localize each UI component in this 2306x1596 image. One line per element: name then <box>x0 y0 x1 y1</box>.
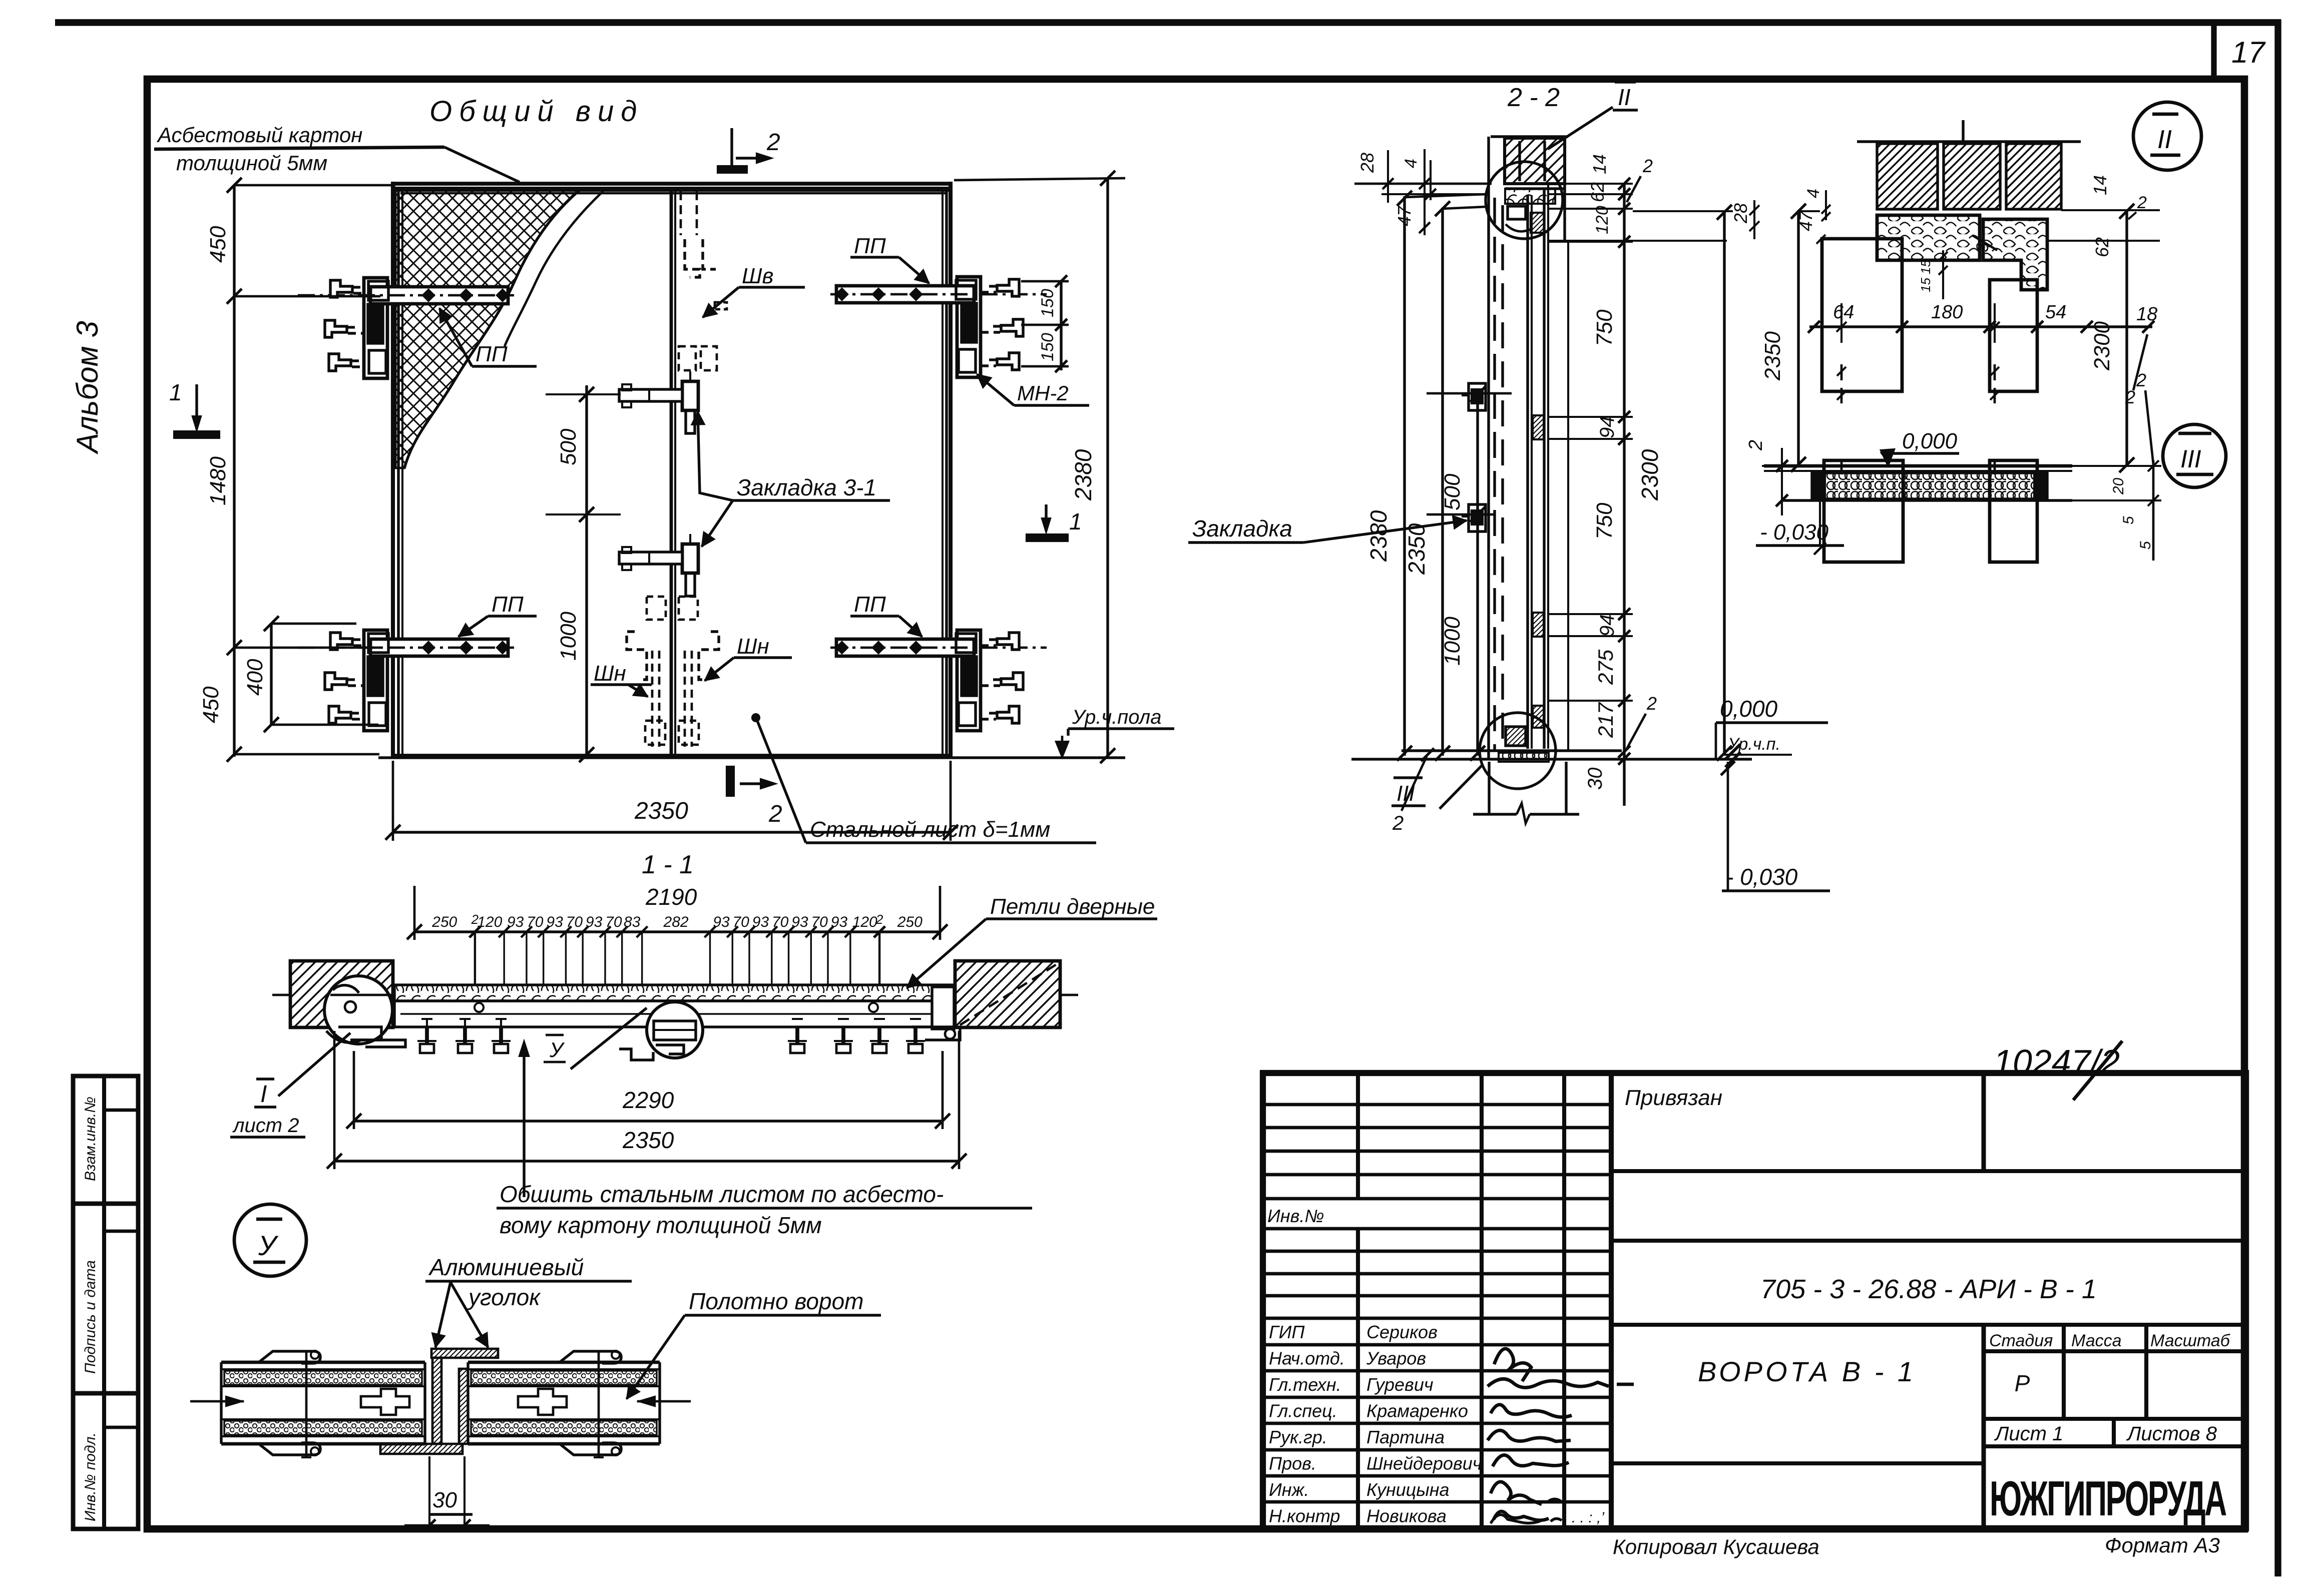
dim 150 150 at right top hinge <box>1060 280 1062 370</box>
svg-text:Взам.инв.№: Взам.инв.№ <box>82 1097 99 1181</box>
svg-text:Шв: Шв <box>742 264 773 288</box>
dim 2350 under section 1-1 <box>333 1031 336 1169</box>
svg-text:2300: 2300 <box>1637 449 1663 501</box>
svg-text:2350: 2350 <box>634 798 688 824</box>
svg-text:Крамаренко: Крамаренко <box>1366 1401 1468 1421</box>
embedded bolt lower <box>1469 504 1486 531</box>
embedded bolt upper <box>1469 383 1486 410</box>
svg-text:64: 64 <box>1833 302 1854 323</box>
note leader vertical line <box>523 1044 525 1197</box>
svg-text:18: 18 <box>2136 304 2157 325</box>
dim 500 1000 inside gate <box>585 385 588 756</box>
svg-text:Масса: Масса <box>2071 1331 2122 1350</box>
svg-text:Шнейдерович: Шнейдерович <box>1366 1453 1482 1474</box>
svg-text:Закладка 3-1: Закладка 3-1 <box>737 474 876 500</box>
svg-text:62: 62 <box>1587 182 1608 202</box>
svg-text:Инв.№: Инв.№ <box>1267 1206 1324 1226</box>
aluminium Z angle top <box>431 1349 498 1358</box>
svg-text:93: 93 <box>507 914 524 930</box>
dim 30 at joint gap <box>428 1456 430 1532</box>
svg-text:5: 5 <box>2137 541 2154 550</box>
svg-text:2 - 2: 2 - 2 <box>1507 83 1560 112</box>
panel right insulation cores <box>471 1371 657 1385</box>
left floor end ticks <box>1776 460 1788 472</box>
svg-text:Закладка: Закладка <box>1192 515 1292 542</box>
svg-text:Обшить стальным листом по а: Обшить стальным листом по асбесто- <box>500 1181 944 1207</box>
svg-text:400: 400 <box>243 659 267 696</box>
title block left table horizontals upper <box>1263 1103 1611 1107</box>
hinge mounting plate <box>364 278 387 378</box>
svg-text:275: 275 <box>1594 649 1617 685</box>
left column upper part <box>1822 239 1902 391</box>
hinge pivot knuckle dark parts <box>368 657 383 696</box>
leaders to aluminium angles <box>435 1282 450 1347</box>
svg-text:5: 5 <box>2120 516 2137 524</box>
svg-text:282: 282 <box>663 914 689 930</box>
big cells verticals <box>1982 1073 1986 1171</box>
svg-text:У: У <box>549 1038 565 1061</box>
svg-text:Альбом 3: Альбом 3 <box>71 321 104 454</box>
svg-text:Лист 1: Лист 1 <box>1994 1423 2063 1445</box>
svg-text:Новикова: Новикова <box>1366 1506 1447 1526</box>
dim 400 line left bottom <box>270 624 272 725</box>
svg-text:толщиной 5мм: толщиной 5мм <box>176 151 327 175</box>
wall inner dashed lines <box>1493 198 1496 751</box>
right chain extension lines <box>1549 183 1633 185</box>
svg-text:II: II <box>1618 84 1631 110</box>
svg-text:4: 4 <box>1804 189 1823 198</box>
svg-text:70: 70 <box>527 914 544 930</box>
door leaf panel left skins <box>221 1361 425 1364</box>
hinge bar rivet diamonds <box>836 642 847 653</box>
svg-text:70: 70 <box>732 914 749 930</box>
gate bottom edge <box>391 754 952 758</box>
svg-text:94: 94 <box>1596 416 1618 439</box>
floor lines detail III <box>1764 464 2072 468</box>
svg-text:250: 250 <box>431 914 457 930</box>
dim 2300 right of detail <box>2125 210 2128 466</box>
svg-text:Стадия: Стадия <box>1989 1331 2053 1350</box>
svg-text:1 - 1: 1 - 1 <box>642 850 694 879</box>
svg-text:2: 2 <box>1646 693 1657 714</box>
svg-text:2: 2 <box>768 801 782 827</box>
section mark 2 bottom <box>727 767 734 796</box>
svg-text:Листов 8: Листов 8 <box>2126 1423 2217 1445</box>
floor lines section 2-2 <box>1402 749 1622 752</box>
big cells horizontals <box>1611 1169 2246 1173</box>
svg-text:- 0,030: - 0,030 <box>1760 520 1829 545</box>
hinge bar axis dash-dot <box>298 647 514 649</box>
svg-text:1000: 1000 <box>556 612 581 661</box>
leaf weld marks at 94 spans <box>1533 415 1544 439</box>
svg-text:2380: 2380 <box>1070 449 1096 501</box>
svg-text:450: 450 <box>206 226 230 263</box>
hinge pivot knuckle dark parts <box>962 657 977 696</box>
svg-text:500: 500 <box>556 428 581 465</box>
section mark 1 right <box>1045 504 1047 530</box>
svg-text:30: 30 <box>1584 768 1606 790</box>
svg-text:Привязан: Привязан <box>1625 1086 1722 1110</box>
hinge wall anchor clamps <box>997 633 1019 650</box>
svg-text:14: 14 <box>2090 175 2110 195</box>
svg-text:2350: 2350 <box>1760 331 1785 381</box>
svg-text:54: 54 <box>2045 302 2066 323</box>
svg-text:Алюминиевый: Алюминиевый <box>428 1254 584 1280</box>
hinge bar <box>370 639 508 656</box>
svg-text:Инж.: Инж. <box>1269 1479 1309 1500</box>
svg-text:2: 2 <box>766 129 780 156</box>
svg-text:120: 120 <box>1593 206 1612 234</box>
svg-text:120: 120 <box>477 914 502 930</box>
wood lintel beam <box>1877 215 1980 260</box>
left column break marks <box>1840 303 1842 343</box>
svg-text:17: 17 <box>2231 36 2266 69</box>
extension above floor left <box>1762 465 1812 467</box>
dim 2290 <box>353 1051 355 1129</box>
left column lower part <box>1824 460 1903 562</box>
page outer right border line <box>2274 20 2281 1576</box>
svg-text:Подпись и дата: Подпись и дата <box>82 1260 99 1374</box>
hinge pivot knuckle dark parts <box>368 304 383 343</box>
svg-text:750: 750 <box>1592 309 1617 346</box>
hinge bar <box>370 287 508 304</box>
svg-text:93: 93 <box>831 914 848 930</box>
svg-text:Куницына: Куницына <box>1366 1479 1450 1500</box>
svg-text:уголок: уголок <box>467 1284 541 1310</box>
svg-text:ПП: ПП <box>854 234 886 258</box>
svg-text:Масштаб: Масштаб <box>2150 1331 2231 1350</box>
leaf top corner hardware <box>1508 206 1526 219</box>
hinge bar rivet diamonds <box>423 290 434 301</box>
hinge bar rivet diamonds <box>423 642 434 653</box>
svg-text:0,000: 0,000 <box>1902 429 1958 453</box>
gate top edge lines <box>391 182 952 186</box>
svg-text:Общий вид: Общий вид <box>429 95 644 128</box>
detail Y callout circle <box>234 1204 306 1276</box>
hinge wall anchor clamps <box>997 279 1019 296</box>
svg-text:70: 70 <box>566 914 583 930</box>
gate leaf section panel weld strip <box>394 985 955 1001</box>
svg-text:I: I <box>260 1081 267 1108</box>
svg-text:1: 1 <box>1069 508 1082 535</box>
svg-text:15: 15 <box>1918 260 1933 274</box>
svg-text:Пров.: Пров. <box>1269 1453 1316 1474</box>
right dimension chain line <box>1623 184 1625 806</box>
svg-text:лист 2: лист 2 <box>232 1115 299 1137</box>
panel right bolt <box>598 1351 600 1457</box>
svg-text:Инв.№ подл.: Инв.№ подл. <box>82 1432 99 1521</box>
svg-text:150: 150 <box>1038 289 1057 317</box>
svg-text:Рук.гр.: Рук.гр. <box>1269 1427 1327 1447</box>
svg-text:ВОРОТА В - 1: ВОРОТА В - 1 <box>1698 1356 1916 1387</box>
panel right end edge <box>658 1362 661 1444</box>
svg-text:Формат А3: Формат А3 <box>2105 1533 2220 1557</box>
leaf top weld seam in circle <box>1505 189 1555 204</box>
lintel underside lines <box>1354 183 1492 185</box>
svg-text:93: 93 <box>713 914 730 930</box>
svg-text:2: 2 <box>1642 156 1653 176</box>
svg-text:МН-2: МН-2 <box>1017 381 1069 405</box>
left end angle bracket <box>350 1040 405 1047</box>
svg-text:Уваров: Уваров <box>1366 1348 1426 1369</box>
svg-text:750: 750 <box>1592 502 1617 540</box>
svg-text:2: 2 <box>2137 193 2147 212</box>
hinge wall anchor clamps <box>330 280 352 297</box>
bottom corner detail circle <box>1480 713 1556 789</box>
svg-text:Нач.отд.: Нач.отд. <box>1269 1348 1345 1369</box>
svg-text:Партина: Партина <box>1366 1427 1445 1447</box>
svg-text:Р: Р <box>2015 1370 2030 1396</box>
section mark 2 top <box>730 128 733 172</box>
handwritten signatures squiggles <box>1494 1349 1531 1381</box>
dim 1000 lower part <box>1470 746 1485 761</box>
hinge wall anchor clamps <box>330 633 352 650</box>
svg-text:. . : ,’: . . : ,’ <box>1572 1509 1605 1526</box>
center bottom latch Shn dashed hardware left <box>647 597 666 620</box>
svg-text:250: 250 <box>897 914 923 930</box>
svg-text:500: 500 <box>1440 473 1465 510</box>
svg-text:Сериков: Сериков <box>1366 1322 1438 1342</box>
panel left inner channel profile <box>361 1389 409 1415</box>
bottom corner hardware and weld dots <box>1506 727 1526 746</box>
center top latch Shv dashed hardware <box>680 191 682 235</box>
gate left edge lines <box>391 182 395 757</box>
svg-text:Гуревич: Гуревич <box>1366 1374 1434 1395</box>
svg-text:2: 2 <box>875 912 883 927</box>
svg-text:Гл.спец.: Гл.спец. <box>1269 1401 1337 1421</box>
svg-text:Копировал Кусашева: Копировал Кусашева <box>1613 1535 1819 1558</box>
hinge bar axis dash-dot <box>298 294 514 297</box>
label asbestos underline <box>154 147 444 149</box>
right column upper part <box>1990 280 2037 391</box>
svg-text:14: 14 <box>1589 154 1610 174</box>
panel left bolt <box>305 1351 308 1457</box>
right bottom small dims 20 5 5 <box>2152 460 2155 561</box>
hinge bar <box>836 639 974 656</box>
svg-text:94: 94 <box>1596 615 1618 637</box>
wall face vertical line <box>1487 137 1490 759</box>
svg-text:1: 1 <box>169 379 182 405</box>
svg-text:93: 93 <box>791 914 808 930</box>
svg-text:ПП: ПП <box>476 342 508 366</box>
hinge bar axis dash-dot <box>830 647 1047 649</box>
svg-text:93: 93 <box>546 914 563 930</box>
svg-text:1000: 1000 <box>1440 617 1465 666</box>
svg-text:62: 62 <box>2092 237 2112 257</box>
hinge pivot detail circle left <box>324 976 392 1044</box>
svg-text:10247/2: 10247/2 <box>1993 1042 2120 1082</box>
svg-text:2380: 2380 <box>1365 510 1392 562</box>
org name YUZHGIPRORUDA box <box>1984 1444 2246 1448</box>
grout weld strip under floor <box>1812 473 2047 499</box>
right column lower part <box>1990 460 2037 562</box>
title block outer border <box>1263 1073 2246 1528</box>
svg-text:2300: 2300 <box>2090 321 2114 371</box>
svg-text:Гл.техн.: Гл.техн. <box>1269 1374 1341 1395</box>
section mark 1 left <box>195 384 198 429</box>
left wall hatched block <box>290 961 393 1027</box>
right wall hatched block <box>955 961 1060 1027</box>
hinge pivot knuckle dark parts <box>962 303 977 342</box>
svg-text:ГИП: ГИП <box>1269 1322 1305 1342</box>
svg-text:Стальной лист δ=1мм: Стальной лист δ=1мм <box>810 817 1050 842</box>
top small dims 28 and 4 <box>1387 150 1389 203</box>
gate hatched corner region crosshatch <box>395 190 580 468</box>
svg-text:2190: 2190 <box>645 884 697 910</box>
left stamp sub-dividers <box>104 1109 138 1112</box>
aluminium Z angle bottom <box>380 1444 463 1454</box>
svg-text:93: 93 <box>586 914 603 930</box>
wall below floor with break <box>1488 762 1490 814</box>
title block left table verticals <box>1356 1073 1360 1199</box>
svg-text:ПП: ПП <box>492 592 524 617</box>
hinge mounting plate <box>957 277 981 377</box>
svg-text:15: 15 <box>1918 278 1933 292</box>
door leaf vertical lines <box>1526 195 1529 749</box>
top small dim 47 <box>1419 222 1430 233</box>
svg-text:2: 2 <box>2136 370 2146 390</box>
svg-text:28: 28 <box>1730 203 1751 224</box>
svg-text:217: 217 <box>1594 702 1617 738</box>
embedded plate zakladka 3-1 item <box>682 544 698 573</box>
torn edge wavy line <box>505 191 603 346</box>
svg-text:180: 180 <box>1931 302 1963 323</box>
svg-text:70: 70 <box>772 914 789 930</box>
hinge bar rivet diamonds <box>836 289 847 300</box>
left dimension chain line 450-1480-450 <box>233 185 235 757</box>
svg-text:III: III <box>2180 445 2201 473</box>
right column break marks <box>1994 303 1996 343</box>
hinge bar <box>836 286 974 303</box>
svg-text:30: 30 <box>432 1488 457 1512</box>
bolts under leaf left group <box>425 1027 429 1052</box>
panel right folded clips <box>560 1351 621 1363</box>
svg-text:Ур.ч.п.: Ур.ч.п. <box>1727 735 1780 754</box>
svg-text:0,000: 0,000 <box>1720 696 1778 722</box>
detail II callout circle <box>2133 102 2201 170</box>
svg-text:28: 28 <box>1357 153 1377 173</box>
svg-text:вому картону толщиной 5мм: вому картону толщиной 5мм <box>500 1212 822 1238</box>
signature rows horizontals <box>1263 1317 1611 1320</box>
svg-text:III: III <box>1397 781 1415 806</box>
svg-text:93: 93 <box>752 914 769 930</box>
svg-text:II: II <box>2157 125 2172 154</box>
svg-text:450: 450 <box>199 686 223 723</box>
masonry top line and tick <box>1857 140 2081 143</box>
svg-text:Шн: Шн <box>594 661 626 686</box>
leader from asbestos label to hatched corner <box>444 147 520 182</box>
center bottom bracket <box>619 1049 653 1060</box>
svg-text:Полотно ворот: Полотно ворот <box>689 1288 864 1314</box>
svg-text:70: 70 <box>605 914 622 930</box>
sheet number box 17 <box>2211 23 2216 79</box>
svg-text:20: 20 <box>2110 477 2127 495</box>
panel left folded clips <box>259 1351 320 1363</box>
svg-text:У: У <box>258 1230 279 1261</box>
svg-text:ПП: ПП <box>854 592 886 617</box>
svg-text:70: 70 <box>811 914 828 930</box>
top corner detail circle <box>1486 162 1563 239</box>
svg-text:4: 4 <box>1402 159 1421 168</box>
center dashed keeper squares upper <box>679 346 696 370</box>
dim 2350 left of section <box>1441 208 1444 756</box>
masonry bricks hatched <box>1877 144 1938 209</box>
gate right edge lines <box>942 190 944 756</box>
svg-text:120: 120 <box>852 914 877 930</box>
center latch detail circle <box>647 1002 703 1058</box>
dim 2380 left of section <box>1403 196 1406 756</box>
left column stamp table <box>73 1076 138 1529</box>
center bottom latch Shn dashed hardware right <box>679 597 698 620</box>
detail III callout circle <box>2163 424 2226 487</box>
svg-text:1480: 1480 <box>206 456 230 505</box>
dim 2350 under gate <box>392 761 394 841</box>
svg-text:150: 150 <box>1038 333 1057 361</box>
hinge mounting plate <box>364 630 387 731</box>
wood corner piece with notch <box>1983 219 2047 290</box>
dim 2350 left of detail II <box>1797 210 1799 465</box>
svg-text:2350: 2350 <box>622 1127 674 1153</box>
panel left insulation cores <box>224 1371 422 1385</box>
svg-text:705 - 3 - 26.88 - АРИ - В - 1: 705 - 3 - 26.88 - АРИ - В - 1 <box>1760 1274 2097 1304</box>
dim 2300 right <box>1723 211 1725 756</box>
panel left end edge <box>220 1362 222 1444</box>
hinge mounting plate <box>957 630 981 731</box>
embedded plate zakladka 3-1 item <box>682 381 698 410</box>
svg-text:Петли дверные: Петли дверные <box>990 894 1155 919</box>
page outer top border line <box>55 19 2281 26</box>
right end hardware <box>932 987 954 1029</box>
list row <box>1984 1417 2246 1421</box>
bolts under leaf right group <box>795 1027 799 1052</box>
dim 2380 right of gate <box>1106 178 1109 757</box>
svg-text:2: 2 <box>1392 812 1404 834</box>
svg-text:Шн: Шн <box>737 634 769 659</box>
lintel wall hatched block <box>1491 135 1568 138</box>
svg-text:83: 83 <box>624 914 641 930</box>
dims 15 15 under beam step <box>1942 250 1944 299</box>
svg-text:- 0,030: - 0,030 <box>1726 864 1798 890</box>
panel right inner channel profile <box>518 1389 567 1415</box>
hinge bar axis dash-dot <box>830 293 1047 296</box>
gate leaf section body <box>394 1001 955 1027</box>
floor line under gate <box>378 756 1125 759</box>
gate center split lines <box>670 189 673 755</box>
svg-text:2: 2 <box>1745 440 1766 451</box>
svg-text:ЮЖГИПРОРУДА: ЮЖГИПРОРУДА <box>1990 1470 2226 1526</box>
svg-text:2290: 2290 <box>622 1087 674 1113</box>
svg-text:Асбестовый картон: Асбестовый картон <box>156 123 362 147</box>
leaf edge verticals at joint <box>423 1362 426 1444</box>
stadiya massa masshtab header <box>2062 1325 2066 1419</box>
dim 500 between zakladka bolts <box>1476 393 1479 756</box>
door leaf panel right skins <box>468 1361 660 1364</box>
svg-text:Н.контр: Н.контр <box>1269 1506 1340 1526</box>
svg-text:Ур.ч.пола: Ур.ч.пола <box>1072 706 1161 728</box>
small dimension chain numbers row <box>469 926 480 937</box>
svg-text:2350: 2350 <box>1404 523 1430 575</box>
horizontal dim line 64 180 54 18 <box>1809 325 2152 328</box>
niche edge lines right <box>1563 184 1566 241</box>
